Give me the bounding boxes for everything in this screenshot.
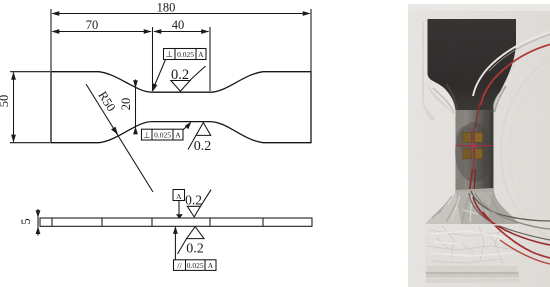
dimension 20 (neck, vertical)	[135, 80, 137, 135]
black grip tab + dark shoulder	[428, 19, 517, 114]
svg-text:A: A	[208, 261, 214, 270]
svg-text:0.2: 0.2	[186, 242, 204, 257]
dimension 50 (left, vertical)	[13, 73, 15, 142]
svg-text:A: A	[175, 131, 181, 140]
extension line left x=51	[50, 9, 52, 71]
svg-text:50: 50	[0, 95, 11, 108]
dimension 70 line	[53, 31, 151, 33]
extension line x=152.5	[152, 27, 154, 91]
dimension 40 line	[154, 31, 209, 33]
svg-text:A: A	[176, 192, 182, 201]
wires exiting bottom right	[471, 191, 550, 221]
svg-text:⊥: ⊥	[165, 49, 173, 59]
soft shadow left of specimen	[422, 22, 436, 120]
svg-text:40: 40	[172, 18, 185, 32]
dimension 5 (thickness)	[37, 209, 39, 236]
foil crinkle strokes on bottom grip	[427, 226, 517, 263]
extension line right x=311	[310, 9, 312, 71]
background wire loop arcs (faint)	[501, 58, 550, 238]
neck (metallic)	[456, 110, 494, 192]
svg-text:0.2: 0.2	[185, 192, 202, 207]
red leads down the neck	[470, 169, 473, 191]
red arc bottom right	[483, 212, 550, 258]
specimen silhouette (foil base)	[426, 19, 519, 274]
tolerance frame bottom (parallelism 0.025 A)	[174, 260, 217, 271]
tolerance frame mid (below neck)	[142, 129, 184, 140]
leader from mid frame to neck bottom	[183, 124, 189, 130]
svg-text:5: 5	[19, 218, 33, 224]
svg-text:0.2: 0.2	[171, 67, 189, 83]
svg-text:180: 180	[157, 1, 176, 15]
photo grain overlay	[408, 4, 550, 287]
strip outline	[40, 218, 312, 226]
roughness symbol top (0.2 on neck top surface)	[171, 81, 190, 92]
svg-text:R50: R50	[95, 89, 118, 114]
roughness symbol below strip (0.2)	[187, 227, 205, 239]
shoulder sheen streaks	[433, 88, 454, 113]
strip ticks	[51, 218, 53, 226]
svg-text://: //	[177, 260, 182, 270]
wires entering from top right	[473, 32, 550, 96]
svg-text:0.025: 0.025	[154, 131, 171, 140]
extension line x=210	[209, 27, 211, 91]
specimen outline (top view dog-bone)	[51, 72, 311, 143]
svg-text:A: A	[198, 50, 204, 59]
dark mottle around gauge	[455, 122, 493, 182]
tolerance frame top (perpendicularity 0.025 A)	[164, 49, 207, 60]
roughness symbol bottom of neck (0.2)	[196, 123, 211, 136]
shoulder foil bright wedges	[428, 82, 456, 123]
datum A symbol	[173, 190, 185, 201]
svg-text:⊥: ⊥	[143, 130, 151, 140]
svg-text:20: 20	[119, 98, 133, 111]
shadow under bottom grip	[426, 272, 519, 274]
svg-text:0.025: 0.025	[187, 261, 204, 270]
svg-text:0.025: 0.025	[177, 50, 194, 59]
svg-text:70: 70	[86, 18, 99, 32]
photo background	[408, 4, 550, 287]
dimension 180 line	[53, 13, 309, 15]
svg-text:0.2: 0.2	[194, 139, 212, 154]
leader from bottom frame up to strip	[174, 228, 176, 260]
tab subtle texture	[437, 25, 492, 78]
roughness symbol above strip (0.2)	[187, 206, 200, 217]
strain gauge rosette	[463, 132, 471, 142]
R50 leader line	[86, 84, 153, 192]
leader from top frame to neck start	[154, 60, 166, 89]
lower flare foil shading	[426, 188, 519, 224]
